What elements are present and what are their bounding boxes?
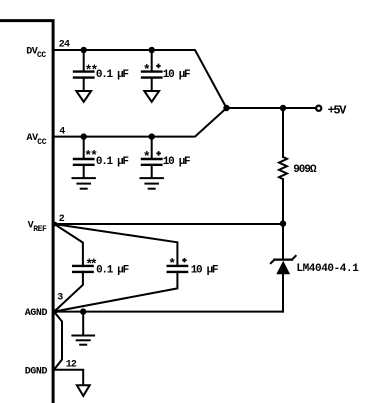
node junction +5V column bbox=[280, 105, 286, 111]
svg-text:0.1 µF: 0.1 µF bbox=[96, 264, 129, 276]
wire C6 bottom to AGND bbox=[54, 272, 177, 312]
wire +5V rail bbox=[227, 107, 316, 109]
ground (analog earth) under C4 bbox=[141, 178, 163, 189]
svg-text:*: * bbox=[143, 63, 151, 78]
capacitor C1 0.1uF (DVCC) bbox=[74, 47, 93, 91]
svg-text:REF: REF bbox=[33, 225, 47, 234]
svg-text:*: * bbox=[168, 257, 176, 272]
pin 4 AVCC wire bbox=[53, 108, 227, 137]
svg-text:LM4040-4.1: LM4040-4.1 bbox=[296, 263, 359, 275]
capacitor C6 10uF (VREF) bbox=[168, 266, 187, 272]
wire C5 bottom to AGND bbox=[54, 272, 83, 312]
wire VREF to C6 top bbox=[54, 224, 177, 266]
ground (analog earth) under C3 bbox=[73, 178, 95, 189]
wire VREF to C5 top bbox=[54, 224, 83, 266]
svg-text:CC: CC bbox=[37, 138, 46, 147]
svg-text:24: 24 bbox=[59, 40, 70, 51]
ground (digital arrow) under C1 bbox=[76, 91, 91, 102]
ground (digital arrow) at DGND bbox=[77, 385, 90, 396]
capacitor C5 0.1uF (VREF) bbox=[73, 266, 92, 272]
svg-text:+5V: +5V bbox=[328, 103, 348, 117]
resistor R1 909 ohm bbox=[279, 108, 287, 224]
svg-text:*: * bbox=[143, 150, 151, 165]
svg-text:AGND: AGND bbox=[25, 308, 48, 319]
node AGND pin blob bbox=[53, 309, 58, 314]
wire AGND to DGND tie bbox=[54, 312, 62, 370]
svg-text:0.1 µF: 0.1 µF bbox=[96, 156, 129, 168]
capacitor C4 10uF (AVCC) bbox=[142, 133, 161, 178]
node junction AGND ground bbox=[80, 308, 86, 314]
svg-text:3: 3 bbox=[57, 293, 63, 304]
svg-text:909Ω: 909Ω bbox=[293, 164, 317, 176]
capacitor C2 10uF (DVCC) bbox=[142, 47, 161, 91]
node junction VREF / R1 / D1 bbox=[280, 220, 286, 226]
svg-text:12: 12 bbox=[66, 360, 77, 371]
svg-text:CC: CC bbox=[37, 51, 46, 60]
IC U1 outline bbox=[0, 21, 53, 403]
svg-text:0.1 µF: 0.1 µF bbox=[96, 69, 129, 81]
svg-text:4: 4 bbox=[59, 127, 65, 138]
svg-text:2: 2 bbox=[59, 214, 65, 225]
svg-text:10 µF: 10 µF bbox=[191, 264, 218, 276]
terminal +5V open circle bbox=[316, 106, 321, 111]
ground (digital arrow) under C2 bbox=[144, 91, 159, 102]
pin 2 VREF wire bbox=[53, 223, 283, 225]
svg-text:10 µF: 10 µF bbox=[163, 69, 190, 81]
pin 3 AGND wire bbox=[53, 311, 283, 313]
pin 24 DVCC wire bbox=[53, 50, 227, 108]
pin 12 DGND wire bbox=[53, 370, 83, 385]
diode D1 LM4040-4.1 bbox=[271, 224, 296, 312]
capacitor C3 0.1uF (AVCC) bbox=[74, 133, 93, 178]
svg-text:10 µF: 10 µF bbox=[163, 156, 190, 168]
svg-text:DGND: DGND bbox=[25, 366, 48, 377]
node junction DVCC/AVCC merge bbox=[223, 105, 229, 111]
node VREF pin blob bbox=[53, 222, 58, 227]
ground (analog earth) at AGND bbox=[72, 312, 94, 345]
